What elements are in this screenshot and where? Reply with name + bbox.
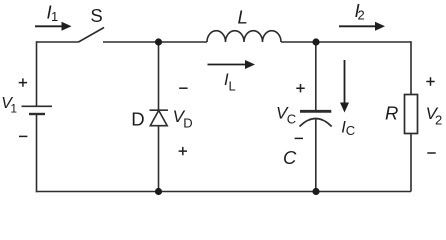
svg-text:C: C xyxy=(346,123,355,138)
wire top-left horizontal (V1 plus to switch) xyxy=(37,41,79,43)
current arrow I1 xyxy=(35,25,63,27)
plus sign of VC xyxy=(296,84,304,92)
capacitor C curved plate (-) xyxy=(300,119,332,127)
resistor R body xyxy=(405,95,418,134)
wire left vertical upper (top wire to battery top plate) xyxy=(36,41,38,105)
minus sign of VC xyxy=(295,137,303,139)
battery V1 bottom plate (short, -) xyxy=(29,113,45,115)
diode D triangle (anode, pointing up) xyxy=(150,110,167,125)
wire capacitor to bottom node D xyxy=(315,119,317,192)
wire node B to top-right corner xyxy=(316,41,411,43)
svg-text:2: 2 xyxy=(358,8,365,23)
svg-text:D: D xyxy=(131,109,144,130)
wire right vertical upper (to resistor) xyxy=(410,41,412,94)
battery V1 top plate (long, +) xyxy=(22,105,53,107)
svg-text:S: S xyxy=(90,5,102,26)
wire node B to capacitor top plate xyxy=(315,42,317,111)
wire switch to node A xyxy=(103,41,159,43)
inductor L humps xyxy=(207,31,281,42)
current arrow IL xyxy=(208,64,247,66)
wire left vertical lower (battery bottom plate to bottom wire) xyxy=(36,114,38,192)
wire bottom horizontal xyxy=(37,191,412,193)
svg-text:R: R xyxy=(385,103,398,124)
switch S blade xyxy=(79,28,105,43)
minus sign of V2 xyxy=(427,152,435,154)
wire node A to diode cathode xyxy=(158,42,160,110)
svg-text:C: C xyxy=(283,147,297,168)
junction node B (capacitor top) xyxy=(312,38,319,45)
diode D cathode bar xyxy=(150,109,169,111)
wire node A to inductor xyxy=(159,41,208,43)
minus sign of VD xyxy=(179,87,187,89)
svg-text:D: D xyxy=(183,116,192,131)
plus sign of V1 xyxy=(19,78,27,86)
junction node C (diode bottom) xyxy=(155,188,162,195)
current arrow I2 xyxy=(339,25,376,27)
plus sign of VD xyxy=(179,147,187,155)
svg-text:C: C xyxy=(287,112,296,127)
junction node A (diode top) xyxy=(155,38,162,45)
svg-text:1: 1 xyxy=(10,102,17,116)
svg-text:1: 1 xyxy=(51,9,58,24)
plus sign of V2 xyxy=(426,77,434,85)
wire inductor to node B xyxy=(281,41,316,43)
current arrow IC (downward) xyxy=(344,60,346,104)
svg-text:L: L xyxy=(229,78,236,93)
svg-text:L: L xyxy=(238,6,248,27)
svg-text:2: 2 xyxy=(435,112,442,127)
minus sign of V1 xyxy=(19,135,27,137)
wire right vertical lower (resistor to bottom) xyxy=(410,134,412,192)
junction node D (capacitor bottom) xyxy=(312,188,319,195)
capacitor C top plate (straight, +) xyxy=(300,110,331,113)
wire diode anode to bottom node C xyxy=(158,126,160,192)
